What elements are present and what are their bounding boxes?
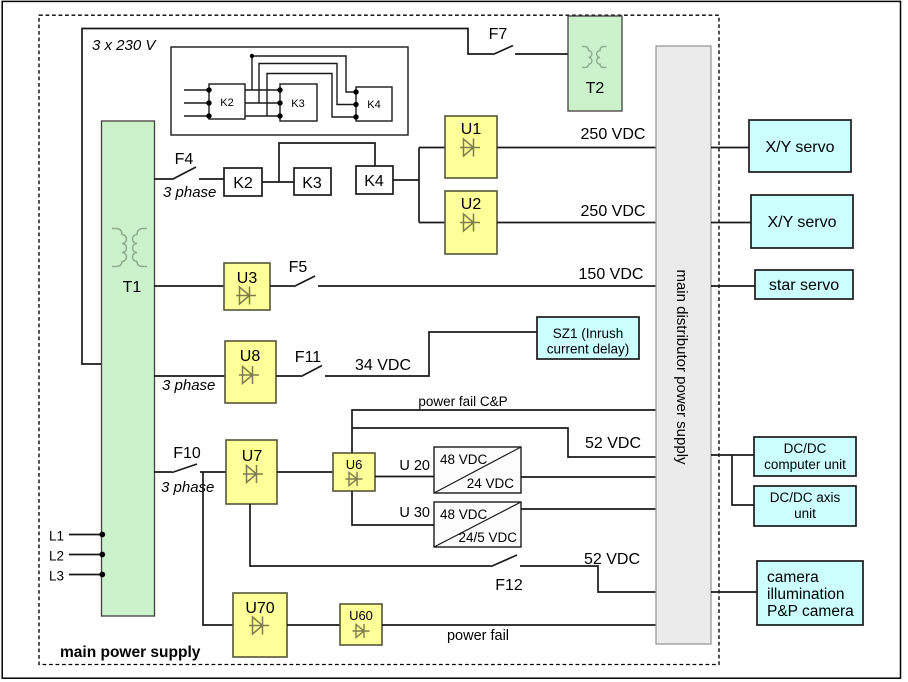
svg-text:SZ1 (Inrush: SZ1 (Inrush xyxy=(553,326,624,341)
wire U70 to U60 xyxy=(287,624,340,626)
svg-text:L2: L2 xyxy=(49,549,64,564)
dashed enclosure main power supply xyxy=(39,15,719,664)
input wires to K2 top xyxy=(184,90,209,116)
wire F10 junction down to U70 xyxy=(203,472,233,625)
wire T1 to F7 feed xyxy=(82,29,493,365)
contactor K3 top xyxy=(280,84,317,121)
wire F7 to T2 xyxy=(515,53,568,55)
wire U20 out xyxy=(521,476,656,478)
rectifier U2 xyxy=(445,191,497,254)
wire to DC/DC units xyxy=(711,455,754,505)
svg-text:24/5 VDC: 24/5 VDC xyxy=(458,530,517,545)
svg-text:unit: unit xyxy=(794,506,816,521)
svg-text:52 VDC: 52 VDC xyxy=(585,435,641,452)
contactor K4 xyxy=(356,166,393,194)
svg-text:F4: F4 xyxy=(175,151,194,168)
svg-text:U70: U70 xyxy=(245,600,274,617)
svg-text:F7: F7 xyxy=(489,26,508,43)
svg-text:DC/DC axis: DC/DC axis xyxy=(770,490,841,505)
wire T1 to U8 xyxy=(154,375,225,377)
coil T2 xyxy=(582,47,607,68)
svg-text:X/Y servo: X/Y servo xyxy=(767,214,836,231)
svg-text:U6: U6 xyxy=(346,457,363,472)
svg-text:K4: K4 xyxy=(367,99,380,111)
load DC/DC axis unit xyxy=(754,486,856,526)
svg-text:3 phase: 3 phase xyxy=(163,184,216,201)
load X/Y servo 2 xyxy=(751,195,853,248)
rectifier U70 xyxy=(233,593,287,657)
svg-text:52 VDC: 52 VDC xyxy=(584,551,640,568)
rectifier U60 xyxy=(340,604,382,645)
transformer T1 xyxy=(102,121,155,616)
wire F12 to distributor 52VDC xyxy=(520,566,656,592)
fuse F7 blade xyxy=(493,46,513,55)
wire K4 to U1/U2 split xyxy=(393,148,445,223)
contactor detail enclosure xyxy=(171,47,408,135)
converter U30 48/24-5 xyxy=(434,502,521,547)
wire U1 out 250VDC xyxy=(497,147,656,149)
main distributor power supply xyxy=(656,46,711,644)
rectifier U6 xyxy=(333,453,375,491)
svg-text:U7: U7 xyxy=(242,448,263,465)
svg-text:U1: U1 xyxy=(461,121,482,138)
svg-text:computer unit: computer unit xyxy=(764,457,846,472)
svg-text:T1: T1 xyxy=(123,279,142,296)
wire U6 to U20 xyxy=(375,476,434,478)
contactor K4 top xyxy=(356,87,392,121)
input lines L1 L2 L3 xyxy=(69,535,102,575)
svg-text:P&P camera: P&P camera xyxy=(767,603,854,620)
svg-text:illumination: illumination xyxy=(767,586,845,603)
svg-text:K3: K3 xyxy=(291,98,304,110)
fuse F5 xyxy=(270,285,294,287)
svg-text:F11: F11 xyxy=(295,349,321,366)
transformer T2 xyxy=(568,16,622,111)
svg-text:F12: F12 xyxy=(495,577,523,594)
svg-text:48 VDC: 48 VDC xyxy=(440,507,488,522)
relay SZ1 xyxy=(537,317,639,359)
svg-text:main power supply: main power supply xyxy=(60,644,201,661)
svg-text:3 phase: 3 phase xyxy=(161,479,214,496)
svg-text:F10: F10 xyxy=(173,445,201,462)
svg-text:48 VDC: 48 VDC xyxy=(440,452,488,467)
svg-text:U 30: U 30 xyxy=(399,505,430,521)
svg-text:L1: L1 xyxy=(49,529,64,544)
svg-text:24 VDC: 24 VDC xyxy=(467,476,515,491)
load camera illumination P&P camera xyxy=(757,561,863,625)
wire K2-K3 xyxy=(262,181,294,183)
svg-text:T2: T2 xyxy=(586,80,605,97)
load X/Y servo 1 xyxy=(749,120,851,172)
wire U7 to U6 xyxy=(277,471,333,473)
loop wire W2 xyxy=(259,64,356,105)
rectifier U7 xyxy=(226,440,277,504)
loop wire W3 xyxy=(267,74,356,118)
contactor K2 top xyxy=(209,84,245,119)
fuse F10 xyxy=(154,471,172,473)
svg-text:DC/DC: DC/DC xyxy=(784,441,827,456)
svg-text:150 VDC: 150 VDC xyxy=(579,266,644,283)
rectifier U3 xyxy=(224,263,270,310)
svg-text:3 phase: 3 phase xyxy=(162,377,215,394)
wire power fail C&P xyxy=(352,410,656,453)
svg-text:L3: L3 xyxy=(49,569,64,584)
load DC/DC computer unit xyxy=(754,437,856,476)
svg-text:U8: U8 xyxy=(240,348,261,365)
wire U60 power fail xyxy=(382,624,656,626)
fuse F4 xyxy=(154,167,224,180)
fuse F11 xyxy=(276,375,301,377)
svg-text:current delay): current delay) xyxy=(547,342,630,357)
coil T1 xyxy=(112,229,147,267)
svg-text:main distributor power supply: main distributor power supply xyxy=(673,269,690,465)
junction dots top cluster xyxy=(206,54,358,120)
svg-text:star servo: star servo xyxy=(769,277,839,294)
wire to X/Y servo 2 xyxy=(711,222,751,224)
contactor K3 xyxy=(294,168,331,195)
rectifier U8 xyxy=(225,341,276,403)
loop wire W1 xyxy=(252,56,356,92)
svg-text:U60: U60 xyxy=(349,608,373,623)
wire to X/Y servo 1 xyxy=(711,147,749,149)
svg-text:F5: F5 xyxy=(289,259,308,276)
wire 52VDC upper xyxy=(352,428,656,457)
wire U7 down to F12 xyxy=(250,504,491,566)
svg-text:250 VDC: 250 VDC xyxy=(581,126,646,143)
load star servo xyxy=(755,270,853,299)
svg-text:U 20: U 20 xyxy=(399,458,430,474)
svg-text:camera: camera xyxy=(767,569,819,586)
wires K2 to K3 top xyxy=(245,90,280,116)
fuse F12 xyxy=(491,555,517,567)
svg-text:3 x 230 V: 3 x 230 V xyxy=(92,37,157,54)
wire U6 to U30 xyxy=(352,491,434,525)
loop wire to K4 top xyxy=(279,143,375,182)
svg-text:250 VDC: 250 VDC xyxy=(581,203,646,220)
svg-text:K3: K3 xyxy=(302,175,322,192)
svg-text:X/Y servo: X/Y servo xyxy=(765,139,834,156)
wire to star servo xyxy=(711,285,755,287)
svg-text:K4: K4 xyxy=(364,173,384,190)
svg-text:K2: K2 xyxy=(220,97,233,109)
svg-text:34 VDC: 34 VDC xyxy=(355,357,411,374)
converter U20 48/24 xyxy=(434,447,521,493)
wire F5 to distributor 150VDC xyxy=(318,285,656,287)
svg-text:U2: U2 xyxy=(461,196,482,213)
wire to camera unit xyxy=(711,591,757,593)
svg-text:power fail C&P: power fail C&P xyxy=(418,394,507,409)
wire T1 to U3 xyxy=(154,285,224,287)
svg-text:power fail: power fail xyxy=(447,628,509,644)
wire F11 to SZ1 34VDC xyxy=(325,332,537,376)
svg-text:U3: U3 xyxy=(237,270,258,287)
wire U2 out 250VDC xyxy=(497,222,656,224)
contactor K2 xyxy=(224,168,262,196)
wire U30 out xyxy=(521,508,656,510)
svg-text:K2: K2 xyxy=(233,175,253,192)
rectifier U1 xyxy=(445,116,497,178)
